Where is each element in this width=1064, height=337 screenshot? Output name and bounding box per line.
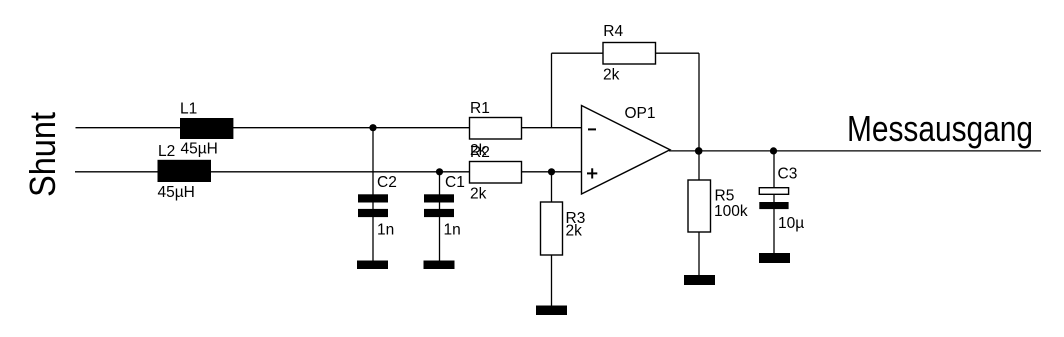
resistor R2: [470, 162, 522, 184]
resistor R1: [470, 118, 522, 140]
op-amp U1 OP1: [582, 106, 671, 195]
ground of R3: [536, 306, 567, 316]
inductor L1: [180, 118, 233, 139]
ground of C1: [424, 261, 455, 270]
svg-text:C1: C1: [445, 174, 465, 191]
svg-text:45µH: 45µH: [181, 141, 218, 158]
capacitor C1: [424, 194, 454, 217]
svg-text:1n: 1n: [377, 221, 394, 238]
node junction dot output / C3: [770, 147, 777, 154]
wire capacitor C2 branch: [372, 128, 374, 261]
wire feedback left vertical: [551, 53, 553, 128]
wire feedback right vertical: [698, 53, 700, 151]
wire resistor R3 branch: [551, 172, 553, 306]
node junction dot top wire / C2: [369, 124, 376, 131]
svg-text:R1: R1: [470, 100, 490, 117]
svg-text:OP1: OP1: [625, 105, 656, 122]
svg-text:100k: 100k: [714, 203, 748, 220]
wire resistor R5 branch: [698, 151, 700, 275]
svg-text:L2: L2: [158, 143, 175, 160]
pin plus of OP1: [587, 168, 597, 178]
wire capacitor C1 branch: [439, 172, 441, 261]
ground of R5: [684, 275, 715, 285]
svg-text:Messausgang: Messausgang: [847, 108, 1033, 149]
svg-text:2k: 2k: [603, 67, 620, 84]
svg-text:2k: 2k: [470, 186, 487, 203]
resistor R3: [541, 202, 563, 255]
svg-text:C2: C2: [377, 174, 397, 191]
node junction dot output / R4 / R5: [695, 147, 703, 155]
svg-text:2k: 2k: [566, 223, 583, 240]
inductor L2: [158, 160, 212, 182]
svg-text:R2: R2: [470, 144, 490, 161]
ground of C3: [759, 253, 790, 263]
node junction dot bottom wire / R3: [548, 168, 555, 175]
wire R4 right lead: [656, 52, 700, 54]
ground of C2: [357, 261, 388, 270]
wire output (op-amp to Messausgang): [669, 150, 1041, 152]
svg-text:45µH: 45µH: [158, 184, 195, 201]
wire top input (Shunt to op-amp inverting input): [76, 127, 582, 129]
svg-text:10µ: 10µ: [778, 215, 804, 232]
capacitor C3 (polarized): [759, 188, 788, 209]
svg-text:Shunt: Shunt: [22, 112, 63, 197]
svg-text:L1: L1: [180, 100, 197, 117]
resistor R4: [603, 43, 656, 65]
svg-text:1n: 1n: [444, 221, 461, 238]
svg-text:R4: R4: [603, 23, 623, 40]
pin minus of OP1: [588, 128, 596, 130]
wire R4 left lead: [552, 52, 604, 54]
wire bottom input (Shunt to op-amp non-inverting input): [75, 171, 582, 173]
svg-text:C3: C3: [778, 165, 798, 182]
node junction dot bottom wire / C1: [436, 168, 443, 175]
svg-text:R5: R5: [715, 188, 735, 205]
resistor R5: [688, 180, 711, 232]
capacitor C2: [358, 194, 388, 217]
wire capacitor C3 branch: [773, 151, 775, 253]
